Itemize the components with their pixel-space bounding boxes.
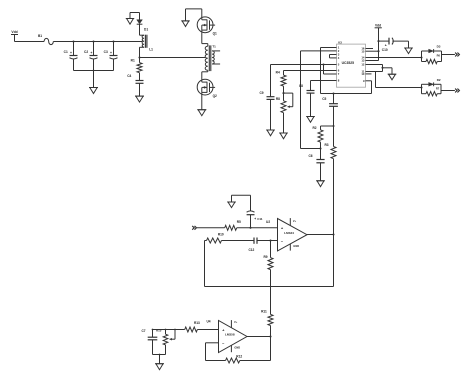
svg-text:Q1: Q1 (213, 32, 217, 36)
node (282, 92, 284, 94)
ground (279, 133, 288, 139)
wire (93, 71, 95, 88)
svg-text:R4: R4 (276, 70, 280, 74)
wire (222, 240, 255, 242)
svg-text:Q2: Q2 (213, 94, 217, 98)
svg-text:C2: C2 (84, 50, 88, 54)
svg-text:GND: GND (293, 244, 299, 248)
wire (441, 90, 455, 92)
svg-text:L1: L1 (149, 48, 153, 52)
diode D3 (422, 45, 442, 62)
wire (53, 41, 142, 43)
node (332, 125, 334, 127)
svg-text:GND: GND (234, 345, 240, 349)
svg-text:R9: R9 (263, 255, 267, 259)
svg-text:C8: C8 (299, 84, 303, 88)
wire (153, 354, 166, 364)
connector output 2 (455, 89, 459, 93)
capacitor C6 (308, 149, 324, 181)
ground (181, 21, 189, 27)
ground (227, 202, 236, 208)
wire (74, 70, 114, 72)
node (152, 329, 154, 331)
capacitor C3 (104, 42, 118, 71)
op-amp U2 LM358 (266, 218, 307, 251)
resistor R6 (422, 51, 442, 64)
resistor R10 (205, 233, 224, 244)
wire pin3-4 (330, 55, 337, 58)
wire pin10 stub (366, 73, 372, 75)
wire (186, 9, 202, 21)
node (269, 239, 271, 241)
capacitor C7 (141, 329, 157, 355)
inductor L1 (142, 35, 153, 52)
capacitor C1 (64, 42, 78, 71)
wire feedback right (205, 235, 334, 287)
capacitor C4 (127, 74, 143, 96)
wire (202, 33, 208, 47)
connector output 1 (455, 53, 459, 57)
ground (306, 117, 315, 123)
wire (206, 343, 226, 361)
potentiometer R15 (156, 329, 176, 355)
wire (15, 41, 45, 43)
wire (307, 234, 334, 236)
svg-text:R10: R10 (218, 233, 224, 237)
svg-text:R8: R8 (276, 97, 280, 101)
svg-text:+: + (70, 51, 72, 55)
svg-text:UC3525: UC3525 (342, 61, 355, 65)
potentiometer R8 (276, 93, 293, 133)
wire (270, 337, 272, 361)
svg-text:T1: T1 (212, 45, 216, 49)
wire (247, 336, 271, 338)
resistor R5 (225, 220, 278, 231)
ground (89, 88, 98, 94)
svg-text:10: 10 (361, 72, 365, 76)
resistor R4 (276, 70, 286, 93)
transistor Q2 (197, 79, 217, 98)
wire (140, 24, 145, 35)
svg-text:C7: C7 (141, 329, 145, 333)
svg-text:+: + (110, 51, 112, 55)
svg-text:C5: C5 (322, 97, 326, 101)
wire (153, 329, 185, 331)
node (322, 63, 324, 65)
ground (266, 130, 275, 136)
resistor R11 (261, 310, 273, 337)
power rail Vdd (input) (11, 30, 18, 41)
ground (388, 74, 397, 80)
node (332, 92, 334, 94)
capacitor C8 (299, 81, 315, 117)
svg-text:B1: B1 (38, 34, 42, 38)
wire (321, 125, 334, 127)
node (420, 86, 422, 88)
capacitor C9 (259, 65, 274, 131)
svg-text:R11: R11 (261, 310, 267, 314)
svg-text:+: + (254, 217, 256, 221)
wire pin12 gnd net (366, 65, 393, 75)
svg-text:U3: U3 (338, 41, 342, 45)
diode D1 (137, 20, 149, 32)
node (112, 40, 114, 42)
ground (404, 48, 413, 54)
diode D2 (422, 78, 442, 94)
wire Vdd vertical (377, 40, 379, 60)
wire (442, 54, 455, 56)
svg-text:R6: R6 (437, 53, 441, 57)
op-amp U4 LM358 (206, 320, 247, 353)
ground (126, 19, 134, 25)
svg-text:V+: V+ (293, 219, 297, 223)
wire (301, 148, 321, 150)
resistor R7 (422, 84, 442, 96)
transistor Q1 (197, 17, 217, 36)
svg-text:C11: C11 (257, 217, 263, 221)
svg-text:C3: C3 (104, 50, 108, 54)
node (377, 50, 379, 52)
node (138, 56, 140, 58)
wire pin5 net (271, 64, 337, 66)
capacitor C5 (322, 94, 338, 127)
resistor R2 (312, 126, 323, 149)
svg-text:12: 12 (361, 63, 365, 67)
resistor R3 (324, 126, 336, 235)
svg-text:C6: C6 (308, 154, 312, 158)
resistor R9 (263, 241, 273, 315)
capacitor C11 (232, 195, 263, 228)
svg-text:C4: C4 (127, 74, 131, 78)
node (319, 147, 321, 149)
node (72, 40, 74, 42)
svg-text:D1: D1 (144, 28, 148, 32)
ground (155, 364, 164, 370)
node (92, 40, 94, 42)
wire (201, 95, 203, 110)
op-amp U3 UC3525 IC body (337, 41, 366, 88)
wire pin2 (301, 51, 337, 149)
wire pin14 (366, 57, 422, 59)
capacitor C2 (84, 42, 97, 71)
svg-text:Vdd: Vdd (11, 30, 17, 34)
node (332, 233, 334, 235)
svg-text:C9: C9 (259, 91, 263, 95)
svg-text:C10: C10 (382, 48, 388, 52)
wire (197, 227, 225, 229)
node (269, 335, 271, 337)
wire pin13 (366, 60, 379, 62)
wire pin8 (311, 80, 337, 82)
svg-text:R7: R7 (436, 87, 440, 91)
svg-text:+: + (90, 51, 92, 55)
svg-text:C1: C1 (64, 50, 68, 54)
wire pin9 loop (321, 81, 372, 94)
capacitor C12 (248, 238, 277, 253)
svg-text:D3: D3 (437, 45, 441, 49)
ground (135, 96, 144, 102)
svg-text:LM358: LM358 (225, 333, 235, 337)
svg-text:R12: R12 (236, 355, 242, 359)
svg-text:C12: C12 (248, 248, 254, 252)
power rail Vdd (right) (375, 24, 382, 42)
connector input (192, 226, 196, 230)
wire pin15 (366, 50, 379, 52)
wire pin1 (321, 48, 337, 94)
fuse B1 (38, 34, 53, 45)
svg-text:R5: R5 (237, 220, 241, 224)
wire pin6 (284, 70, 337, 72)
resistor R13 (185, 321, 219, 332)
svg-text:V+: V+ (234, 320, 238, 324)
wire pin7 (324, 65, 337, 75)
svg-text:R13: R13 (194, 321, 200, 325)
resistor R12 (226, 355, 271, 363)
wire pin16 stub (366, 48, 374, 50)
wire (140, 57, 206, 59)
wire pin11 (366, 72, 422, 88)
resistor R1 (131, 58, 142, 81)
svg-text:D2: D2 (437, 78, 441, 82)
transformer T1 (205, 45, 220, 72)
wire (140, 47, 145, 57)
svg-text:R2: R2 (312, 126, 316, 130)
wire (202, 70, 208, 79)
svg-text:Vdd: Vdd (375, 24, 381, 28)
pin numbers U3 (338, 46, 365, 83)
ground (316, 181, 325, 187)
ground (197, 110, 206, 116)
capacitor C10 (379, 38, 409, 52)
svg-text:15: 15 (361, 49, 365, 53)
node (420, 56, 422, 58)
svg-text:R3: R3 (324, 143, 328, 147)
node (249, 227, 251, 229)
svg-text:LM324: LM324 (284, 231, 294, 235)
svg-text:R1: R1 (131, 59, 135, 63)
svg-text:U4: U4 (206, 320, 210, 324)
wire (130, 13, 140, 20)
svg-text:U2: U2 (266, 220, 270, 224)
